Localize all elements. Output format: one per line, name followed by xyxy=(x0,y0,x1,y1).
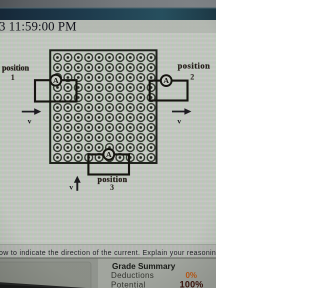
page background (screen photo, light with vertical moire stripes) xyxy=(0,0,216,288)
field symbols row 6 (B out of page) xyxy=(54,104,155,112)
velocity arrow for loop 2 (points right) xyxy=(172,108,191,125)
field symbols row 3 (B out of page) xyxy=(54,74,155,82)
faint answer input box xyxy=(0,262,91,293)
loop at position 1 (left, half in field) xyxy=(35,80,77,101)
photo vignette xyxy=(0,0,216,288)
field symbols row 2 (B out of page) xyxy=(54,64,155,72)
magnetic field region boundary xyxy=(50,50,156,163)
field symbols row 8 (B out of page) xyxy=(54,124,155,132)
field symbols row 5 (B out of page) xyxy=(54,94,155,102)
ammeter A2 xyxy=(161,75,172,86)
field symbols row 7 (B out of page) xyxy=(54,114,155,122)
label: position 1 xyxy=(2,64,30,82)
label: position 3 xyxy=(98,175,128,192)
field symbols row 9 (B out of page) xyxy=(54,134,155,142)
ammeter A3 xyxy=(103,149,114,160)
velocity arrow for loop 3 (points up) xyxy=(69,176,80,192)
field symbols row 10 (B out of page) xyxy=(54,144,155,152)
grade summary panel background xyxy=(0,259,216,289)
timer strip xyxy=(0,20,216,33)
teal title bar xyxy=(0,8,216,21)
loop at position 3 (bottom, half in field) xyxy=(88,154,129,174)
label: position 2 xyxy=(178,60,211,81)
ammeter A1 xyxy=(50,75,61,86)
dark photo corner bottom-left xyxy=(0,282,86,288)
velocity arrow for loop 1 (points right) xyxy=(22,108,41,125)
field symbols row 1 (B out of page) xyxy=(54,54,155,62)
loop at position 2 (right, half out of field) xyxy=(150,81,188,101)
field symbols row 11 (B out of page) xyxy=(54,154,155,162)
field symbols row 4 (B out of page) xyxy=(54,84,155,92)
question text strip xyxy=(0,245,216,259)
top camera-dark strip xyxy=(0,0,216,8)
